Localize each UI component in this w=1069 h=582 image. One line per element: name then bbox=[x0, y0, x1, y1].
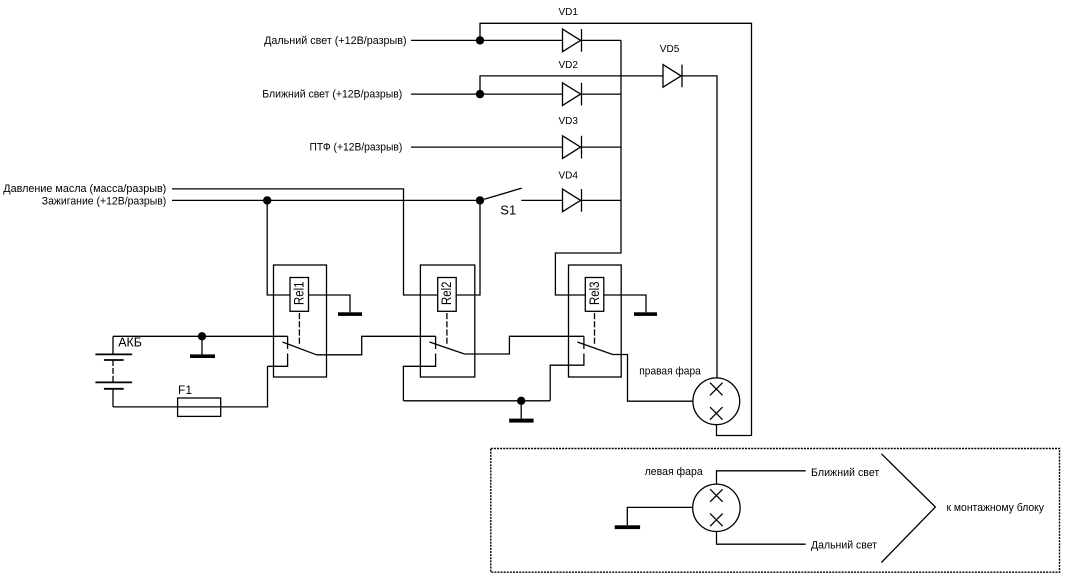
fuse F1 bbox=[178, 398, 221, 416]
label Rel3 bbox=[586, 281, 602, 305]
relay Rel3 NC contact to ground rail bbox=[550, 354, 584, 401]
wire left lamp low-beam terminal bbox=[717, 471, 806, 484]
net label Давление масла input bbox=[3, 183, 166, 195]
wire left lamp high-beam terminal bbox=[717, 532, 806, 545]
wire Rel3 output to right lamp bbox=[613, 355, 693, 402]
relay Rel3 coil box bbox=[585, 278, 604, 312]
diode VD4 bbox=[563, 189, 582, 212]
net label ПТФ input bbox=[310, 142, 403, 154]
svg-text:Rel3: Rel3 bbox=[586, 281, 602, 305]
relay Rel2 coil-armature dashed link bbox=[446, 313, 448, 346]
label VD4 bbox=[559, 170, 579, 181]
relay Rel2 common terminal bbox=[435, 336, 437, 349]
relay Rel1 coil-armature dashed link bbox=[298, 313, 300, 346]
svg-text:левая фара: левая фара bbox=[645, 466, 704, 478]
ground at battery bus bbox=[190, 336, 215, 358]
diode VD5 bbox=[663, 65, 682, 88]
label левая фара bbox=[645, 466, 704, 478]
enclosure dashed box (левая фара harness) bbox=[491, 449, 1060, 573]
ground rail between Rel2 and Rel3 bbox=[403, 400, 550, 402]
svg-text:VD3: VD3 bbox=[559, 116, 579, 127]
wire Rel1 output to Rel2 common bbox=[317, 336, 436, 355]
wire fuse to Rel1 NC contact bbox=[221, 366, 268, 407]
node junction Ближний/VD5 feed bbox=[476, 90, 484, 98]
wire Rel1 coil supply bbox=[267, 200, 290, 295]
label VD1 bbox=[559, 7, 579, 18]
diode VD1 bbox=[563, 29, 582, 52]
svg-text:F1: F1 bbox=[178, 383, 192, 397]
label VD2 bbox=[559, 60, 579, 71]
wire Давление масла to Rel2 coil left bbox=[172, 189, 438, 295]
relay Rel1 outer box bbox=[274, 265, 327, 377]
ground at Rel3 coil bbox=[634, 312, 657, 316]
svg-text:Дальний свет: Дальний свет bbox=[811, 540, 877, 552]
battery АКБ bbox=[95, 336, 132, 407]
connector chevron к монтажному блоку bbox=[881, 454, 935, 563]
wire Rel1 coil to ground bbox=[309, 295, 351, 312]
relay Rel3 outer box bbox=[569, 265, 622, 377]
wire VD1 cathode to diode bus bbox=[582, 39, 622, 41]
relay Rel3 common terminal bbox=[583, 336, 585, 349]
wire Ближний свет to VD2 anode bbox=[411, 93, 563, 95]
label S1 bbox=[500, 203, 516, 218]
node junction Зажигание/S1/Rel2 coil bbox=[476, 196, 484, 204]
svg-text:Ближний свет (+12В/разрыв): Ближний свет (+12В/разрыв) bbox=[262, 89, 402, 101]
svg-text:Давление масла (масса/разрыв): Давление масла (масса/разрыв) bbox=[3, 183, 166, 195]
wire diode bus to Rel3 coil left bbox=[555, 40, 621, 295]
relay Rel3 armature blade bbox=[577, 342, 612, 355]
relay Rel2 coil box bbox=[438, 278, 457, 312]
label Rel2 bbox=[438, 281, 454, 305]
svg-text:Зажигание (+12В/разрыв): Зажигание (+12В/разрыв) bbox=[42, 195, 167, 207]
svg-text:Дальний свет (+12В/разрыв): Дальний свет (+12В/разрыв) bbox=[264, 35, 407, 47]
label VD5 bbox=[660, 44, 680, 55]
svg-text:к монтажному блоку: к монтажному блоку bbox=[947, 502, 1045, 514]
node junction Дальний/high-beam bus bbox=[476, 36, 484, 44]
svg-text:VD4: VD4 bbox=[559, 170, 579, 181]
wire Ближний junction to VD5 anode bbox=[480, 76, 663, 94]
label VD3 bbox=[559, 116, 579, 127]
switch S1 blade bbox=[484, 188, 522, 199]
relay Rel2 outer box bbox=[420, 265, 474, 377]
ground at Rel1 coil bbox=[338, 312, 362, 316]
node junction battery bus ground tap bbox=[198, 332, 206, 340]
relay Rel2 armature blade bbox=[430, 342, 465, 354]
net label Дальний свет input bbox=[264, 35, 407, 47]
label Ближний свет terminal bbox=[811, 467, 879, 479]
wire Rel2 coil right supply bbox=[456, 200, 480, 295]
relay Rel2 NC contact to ground rail bbox=[403, 354, 435, 401]
svg-text:АКБ: АКБ bbox=[118, 336, 142, 350]
wire VD2 cathode to diode bus bbox=[582, 93, 622, 95]
relay Rel1 coil box bbox=[290, 278, 309, 312]
svg-text:VD5: VD5 bbox=[660, 44, 680, 55]
wire high-beam bus to right lamp bottom bbox=[480, 23, 752, 435]
wire Дальний свет to VD1 anode bbox=[411, 39, 563, 41]
wire left lamp to ground bbox=[627, 507, 692, 525]
ground at rail bbox=[509, 401, 533, 423]
node junction ground rail tap bbox=[517, 397, 525, 405]
label правая фара bbox=[639, 366, 701, 378]
lamp левая фара bbox=[693, 484, 740, 531]
svg-text:VD1: VD1 bbox=[559, 7, 579, 18]
wire ПТФ to VD3 anode bbox=[411, 146, 563, 148]
relay Rel1 armature blade bbox=[283, 342, 317, 355]
wire Rel2 output to Rel3 common bbox=[465, 336, 584, 354]
wire VD3 cathode to diode bus bbox=[582, 146, 622, 148]
svg-text:правая фара: правая фара bbox=[639, 366, 701, 378]
label Дальний свет terminal bbox=[811, 540, 877, 552]
wire battery plus bus to Rel1 common bbox=[113, 335, 288, 337]
svg-text:VD2: VD2 bbox=[559, 60, 579, 71]
label к монтажному блоку bbox=[947, 502, 1045, 514]
svg-text:ПТФ (+12В/разрыв): ПТФ (+12В/разрыв) bbox=[310, 142, 403, 154]
label Rel1 bbox=[291, 281, 307, 305]
wire Rel3 coil to ground bbox=[604, 295, 646, 312]
relay Rel1 common terminal bbox=[287, 336, 289, 349]
net label Ближний свет input bbox=[262, 89, 402, 101]
wire VD5 cathode to right lamp top bbox=[682, 76, 717, 378]
svg-text:Rel2: Rel2 bbox=[438, 281, 454, 305]
lamp правая фара bbox=[693, 378, 740, 425]
label F1 bbox=[178, 383, 192, 397]
ground at left lamp bbox=[615, 525, 640, 529]
wire battery minus to fuse F1 bbox=[113, 406, 178, 408]
diode VD3 bbox=[563, 136, 582, 159]
wire S1 to VD4 anode bbox=[521, 199, 562, 201]
relay Rel3 coil-armature dashed link bbox=[594, 313, 596, 346]
node junction Зажигание/Rel1 coil bbox=[263, 196, 271, 204]
net label Зажигание input bbox=[42, 195, 167, 207]
relay Rel1 NC contact bbox=[268, 354, 288, 367]
diode VD2 bbox=[563, 83, 582, 106]
svg-text:Rel1: Rel1 bbox=[291, 281, 307, 305]
svg-text:Ближний свет: Ближний свет bbox=[811, 467, 879, 479]
label АКБ bbox=[118, 336, 142, 350]
svg-text:S1: S1 bbox=[500, 203, 516, 218]
wire Зажигание to S1 bbox=[172, 199, 480, 201]
wire VD4 cathode to diode bus bbox=[582, 199, 622, 201]
